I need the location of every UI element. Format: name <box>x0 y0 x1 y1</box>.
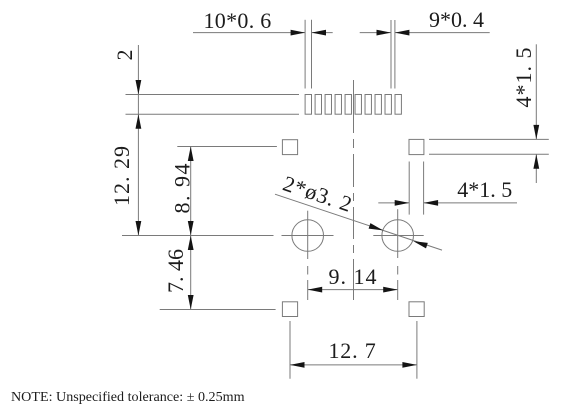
arrow left 4*1.5 horizontal <box>424 200 439 206</box>
right circle vertical crosshair <box>397 209 399 258</box>
pad 9 <box>385 95 391 115</box>
arrow up 4*1.5 vertical bottom <box>533 154 539 169</box>
pad 3 <box>325 95 331 115</box>
ext line for 7.46 bottom <box>160 309 276 311</box>
arrow up 7.46 top <box>188 236 194 251</box>
pad 2 <box>315 95 321 115</box>
dim line 9.14 <box>308 289 398 291</box>
pad 8 <box>375 95 381 115</box>
pad 1 <box>305 95 311 115</box>
mount square top-left <box>282 140 297 155</box>
svg-text:9. 14: 9. 14 <box>329 264 378 289</box>
right square width ext lines <box>408 162 410 215</box>
leader arrow lower (points up-left at circle edge) <box>413 241 428 248</box>
hole circle right <box>382 220 414 252</box>
mount square bottom-left <box>282 302 297 317</box>
arrow left 10*0.6 <box>312 30 327 36</box>
arrow right 12.7 <box>402 362 417 368</box>
arrow up 8.94 top <box>188 147 194 162</box>
svg-text:10*0. 6: 10*0. 6 <box>204 8 272 33</box>
ext lines 12.7 <box>289 321 291 379</box>
arrow left 12.7 <box>290 362 305 368</box>
dim line: 2 and 12.29 <box>137 45 139 236</box>
pad 4 <box>335 95 341 115</box>
horizontal centerline through circles <box>122 235 274 237</box>
left circle vertical crosshair <box>307 211 309 259</box>
connector body top edge <box>126 94 300 96</box>
svg-text:4*1. 5: 4*1. 5 <box>457 177 512 202</box>
arrow right 9*0.4 <box>377 30 392 36</box>
vertical centerline (dash-dot) <box>353 80 355 300</box>
ext line for 8.94 top <box>177 146 277 148</box>
svg-text:12. 29: 12. 29 <box>109 145 134 206</box>
dim line 4*1.5 horizontal <box>378 202 409 204</box>
arrow right 4*1.5 horizontal <box>395 200 410 206</box>
dim 9*0.4 line right tail <box>395 32 490 34</box>
pad 10 <box>395 95 401 115</box>
dim 10*0.6 line right tail <box>312 32 333 34</box>
note text <box>11 389 245 405</box>
arrow down 7.46 bottom <box>188 295 194 310</box>
dim 9*0.4 line left tail <box>360 32 391 34</box>
arrow down 4*1.5 vertical top <box>533 125 539 139</box>
arrow down at band top (dim 2) <box>136 80 142 95</box>
pad 6 <box>355 95 361 115</box>
arrow left 9*0.4 <box>395 30 410 36</box>
ext lines pad1 <box>304 20 306 89</box>
svg-text:9*0. 4: 9*0. 4 <box>429 7 484 32</box>
arrow right 9.14 <box>383 287 398 293</box>
arrow right 10*0.6 <box>291 30 306 36</box>
pad 7 <box>365 95 371 115</box>
leader line 2*dia3.2 <box>275 194 442 250</box>
svg-text:7. 46: 7. 46 <box>163 249 188 293</box>
svg-text:12. 7: 12. 7 <box>329 338 377 363</box>
arrow down at circle axis (dim 12.29 bottom) <box>136 221 142 236</box>
svg-text:2*ø3. 2: 2*ø3. 2 <box>280 171 356 217</box>
right square height ext lines <box>429 138 549 140</box>
leader arrow upper (points down-right at circle edge) <box>369 223 384 230</box>
mount square bottom-right <box>409 302 424 317</box>
ext lines gap9 <box>390 20 392 89</box>
svg-text:8. 94: 8. 94 <box>170 162 195 214</box>
hole circle left <box>292 220 324 252</box>
connector body bottom edge <box>126 113 300 115</box>
dim 10*0.6 line left <box>193 32 305 34</box>
pad 5 <box>345 95 351 115</box>
dim line 4*1.5 vertical <box>535 44 537 139</box>
svg-text:4*1. 5: 4*1. 5 <box>511 47 536 108</box>
dim line: 8.94 / 7.46 <box>190 147 192 310</box>
arrow down 8.94 bottom <box>188 221 194 236</box>
dim line 12.7 <box>290 364 417 366</box>
arrow left 9.14 <box>308 287 323 293</box>
mount square top-right <box>409 139 424 154</box>
arrow up at band bottom (dim 12.29 top) <box>136 114 142 129</box>
svg-text:2: 2 <box>112 50 137 61</box>
svg-text:NOTE: Unspecified tolerance: ±: NOTE: Unspecified tolerance: ± 0.25mm <box>11 389 245 405</box>
